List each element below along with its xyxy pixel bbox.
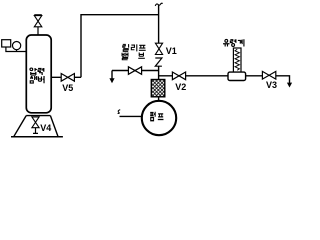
label 압력챔버 pressure chamber korean — [30, 68, 44, 83]
챔 — [30, 76, 36, 83]
wire gauge connector — [5, 47, 26, 52]
chamber base stand — [14, 116, 58, 137]
wire flow meter to V3 — [246, 75, 263, 77]
pressure gauge circle — [13, 42, 21, 50]
valve V4 — [32, 117, 39, 133]
filter strainer box — [151, 80, 165, 97]
압 — [30, 68, 37, 75]
wire top header line — [81, 14, 159, 16]
밸 — [122, 53, 128, 60]
브 — [138, 52, 145, 58]
릴 — [123, 44, 129, 51]
valve V3 — [262, 71, 275, 79]
wire filter to pump segment — [158, 97, 160, 102]
wire relief branch line — [112, 70, 159, 72]
pump circle — [142, 101, 176, 135]
valve V5 — [61, 74, 74, 82]
flex joint Z below V1 — [155, 58, 162, 66]
node pump cord squiggle — [118, 110, 121, 114]
wire right riser top segment — [158, 5, 160, 43]
svg-text:V5: V5 — [62, 83, 73, 93]
펌 — [150, 112, 155, 121]
계 — [238, 39, 244, 46]
valve V2 — [172, 72, 185, 80]
pressure transmitter square — [2, 40, 11, 47]
wire pump suction line — [120, 115, 142, 117]
svg-text:V3: V3 — [266, 80, 277, 90]
relief valve body — [128, 67, 141, 75]
프 — [139, 45, 146, 50]
wire right riser mid segment — [158, 66, 160, 80]
node vent arrowhead left — [109, 78, 114, 83]
wire left riser from top line down to V5 line — [80, 14, 82, 77]
wire V3 to right vent — [276, 76, 290, 84]
safety valve on chamber top — [34, 15, 42, 35]
유 — [223, 39, 229, 46]
flow meter tube — [233, 48, 241, 72]
label 유량계 flow meter korean — [223, 39, 244, 46]
wire relief vent drop — [111, 71, 113, 80]
flow meter base — [228, 72, 246, 80]
node vent squiggle top — [155, 3, 163, 6]
node vent arrowhead right — [287, 83, 292, 88]
프 — [158, 114, 164, 120]
svg-text:V1: V1 — [166, 46, 177, 56]
label 릴리프 밸브 relief valve korean — [122, 44, 146, 60]
pressure chamber vessel — [26, 35, 51, 113]
리 — [131, 44, 136, 51]
량 — [230, 39, 236, 46]
svg-text:V4: V4 — [40, 123, 51, 133]
wire V5 line chamber to riser — [51, 76, 81, 78]
svg-text:V2: V2 — [175, 82, 186, 92]
력 — [38, 68, 44, 75]
버 — [38, 76, 44, 83]
label 펌프 pump korean — [150, 112, 163, 121]
wire main line junction to flow meter — [159, 75, 229, 77]
valve V1 — [155, 43, 162, 54]
